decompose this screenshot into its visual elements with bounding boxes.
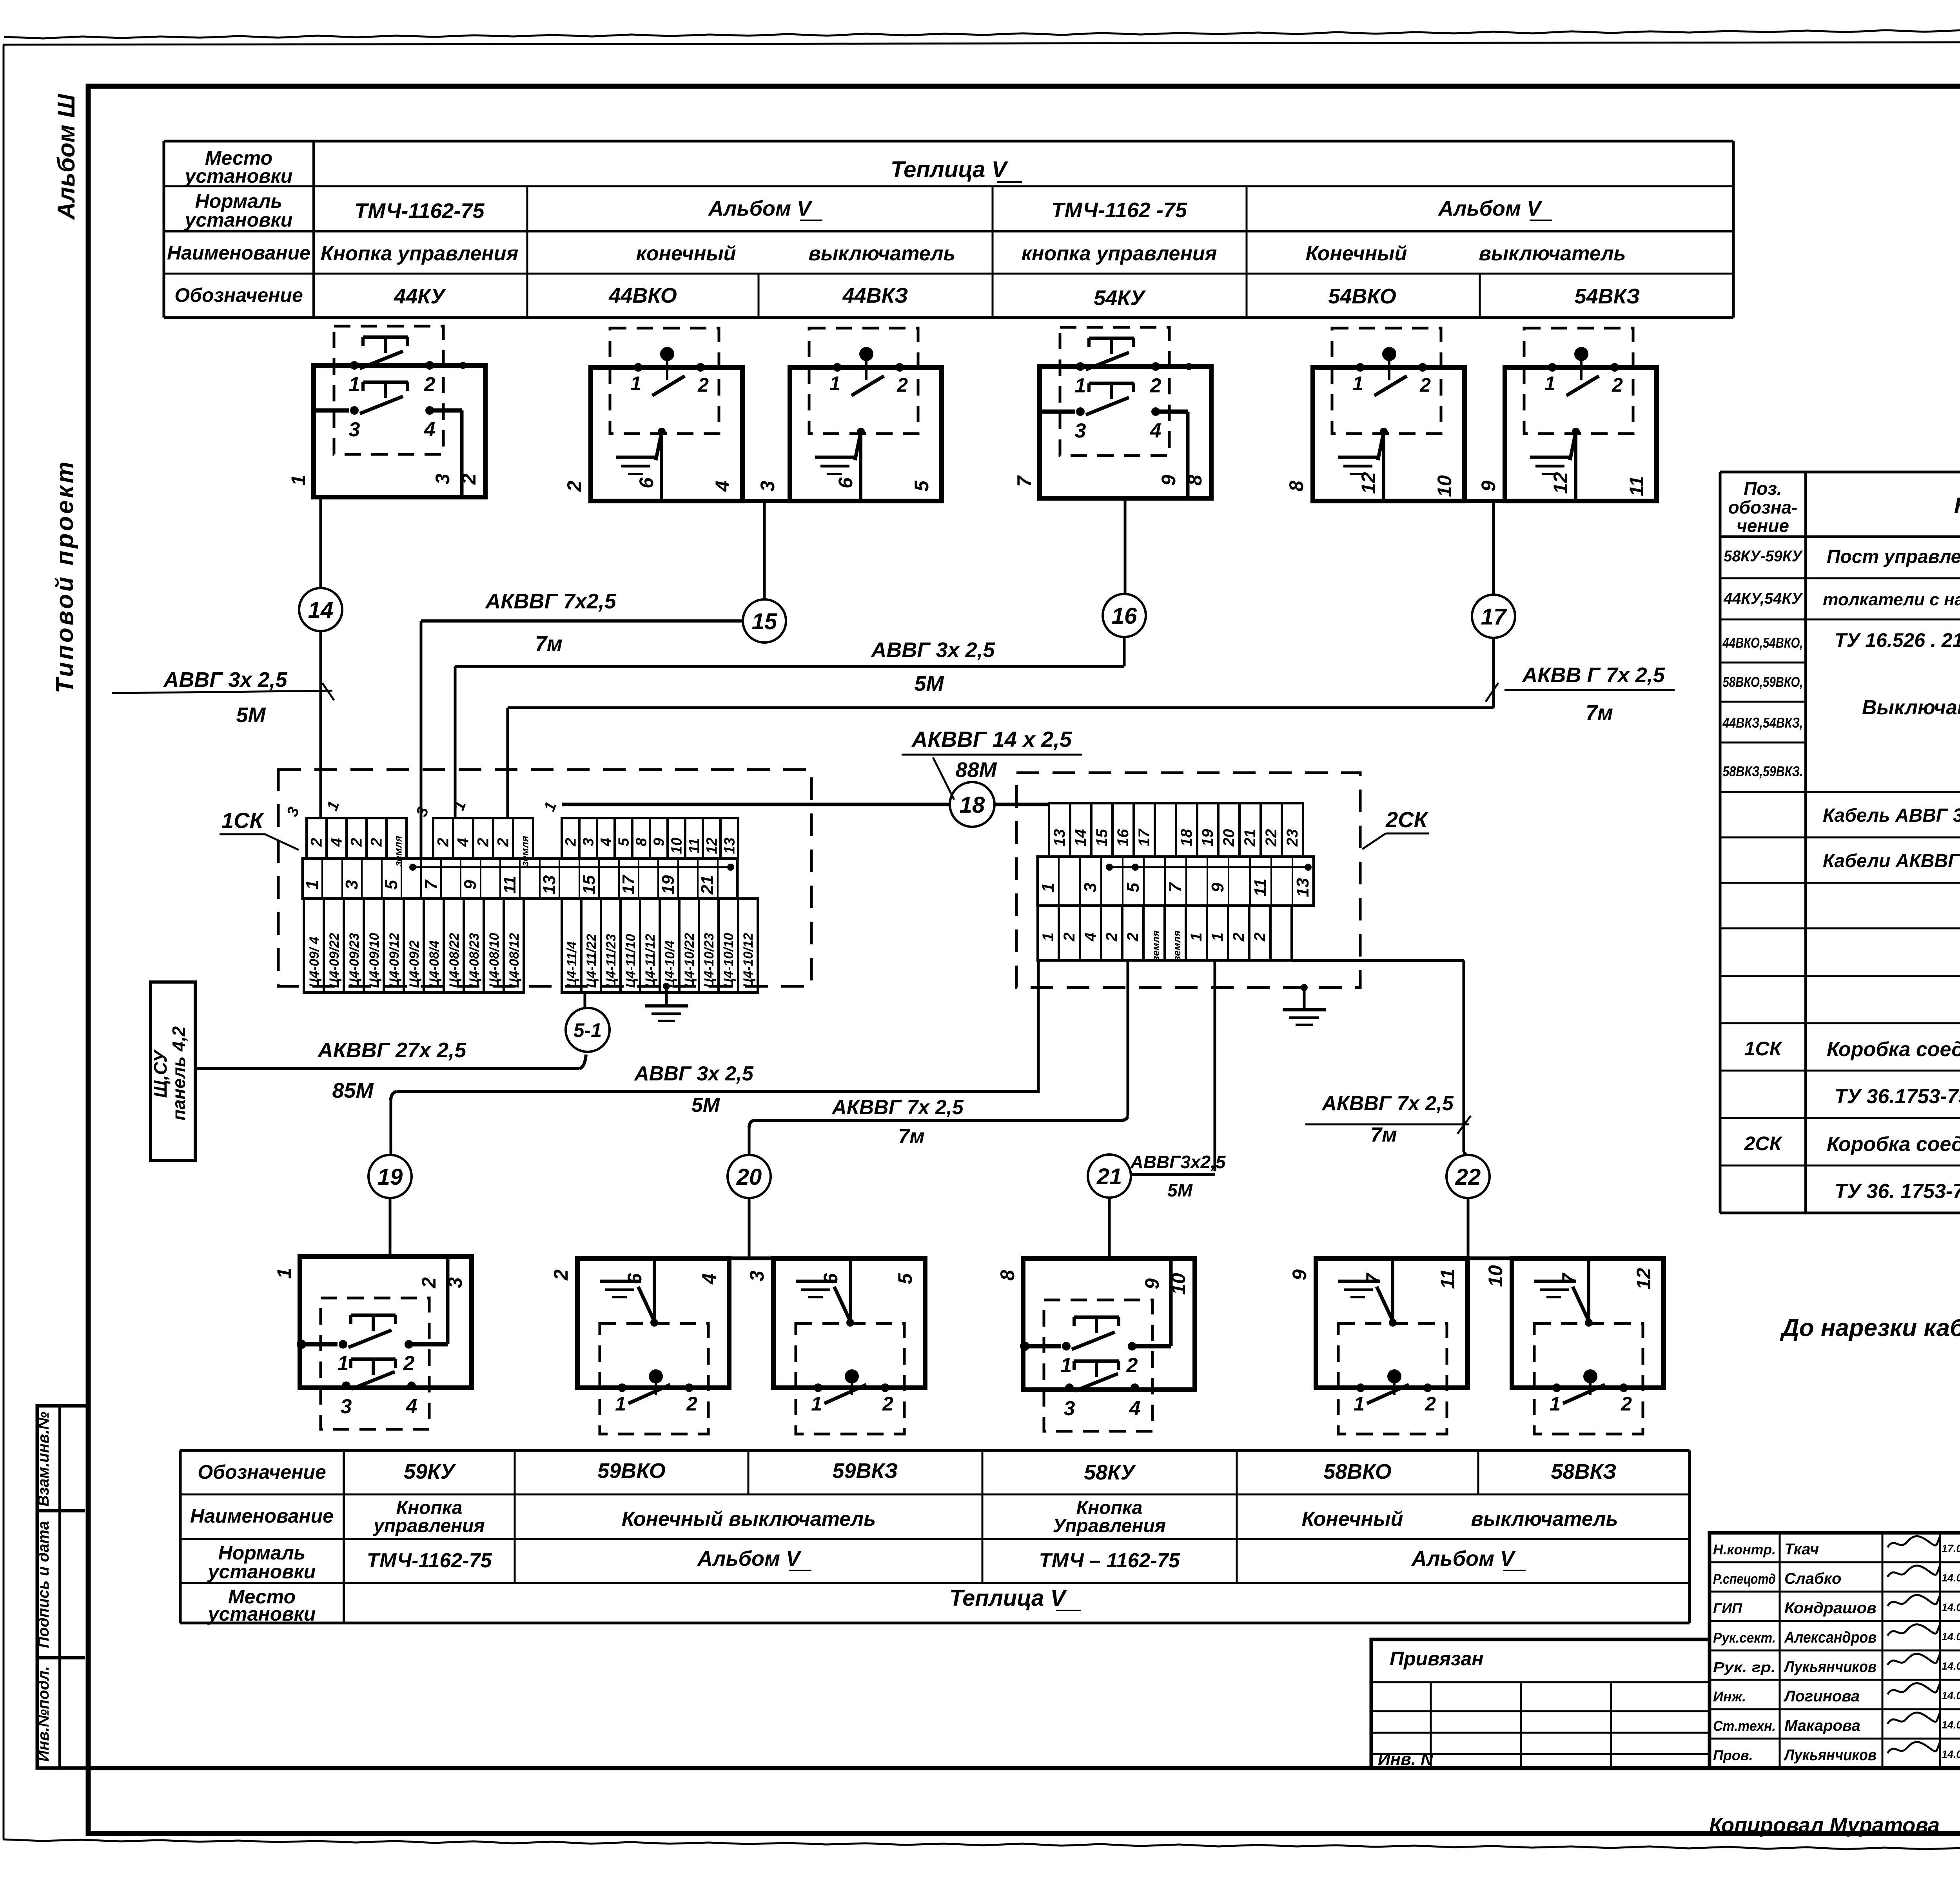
svg-text:ТМЧ – 1162-75: ТМЧ – 1162-75 [1039,1549,1180,1572]
cable label AVVG 3x2,5 5M (to 21) [1130,1152,1226,1200]
svg-text:44ВКО,54ВКО,: 44ВКО,54ВКО, [1722,635,1803,651]
svg-text:Ст.техн.: Ст.техн. [1713,1718,1776,1734]
svg-text:4: 4 [711,481,733,492]
svg-text:Подпись и дата: Подпись и дата [35,1521,52,1648]
ground at 1SK [645,983,688,1021]
svg-text:10: 10 [1434,475,1455,497]
svg-text:7: 7 [1558,1273,1580,1284]
svg-text:панель 4,2: панель 4,2 [169,1026,189,1120]
svg-text:Типовой проект: Типовой проект [51,459,78,693]
svg-text:22: 22 [1263,829,1280,847]
wire 44VK pair to marker 15 [763,501,766,600]
svg-text:19: 19 [377,1164,403,1190]
svg-text:14.01.86г: 14.01.86г [1942,1660,1960,1672]
svg-text:10: 10 [1167,1273,1189,1295]
svg-text:20: 20 [736,1164,762,1190]
svg-text:16: 16 [1114,829,1132,846]
svg-text:Обозначение: Обозначение [198,1461,326,1483]
svg-text:1: 1 [1188,933,1205,941]
svg-text:13: 13 [1293,878,1312,897]
cable marker 14 [299,588,342,631]
svg-text:7: 7 [1013,475,1035,487]
svg-text:3: 3 [1081,883,1100,892]
svg-text:земля: земля [392,836,404,866]
svg-text:18: 18 [960,792,985,818]
svg-text:Ц4-09/ 4: Ц4-09/ 4 [307,937,322,988]
wire 2SK to marker 19 (AVVG 3x2,5) [1037,960,1040,1093]
cable label AKVVG 7x2,5 7m (to 22) [1305,1092,1471,1146]
svg-text:14: 14 [1072,829,1089,847]
cable label AVVG 3x2,5 5M (left, to 14) [112,668,334,727]
svg-text:Ц4-08/22: Ц4-08/22 [447,933,462,988]
svg-text:9: 9 [651,838,668,846]
svg-text:2: 2 [1103,933,1120,942]
cable marker 20 [728,1155,771,1198]
svg-text:выключатель: выключатель [1471,1508,1618,1530]
svg-text:Александров: Александров [1784,1629,1877,1646]
svg-text:Ц4-08/4: Ц4-08/4 [427,940,442,988]
svg-text:7м: 7м [898,1125,924,1148]
svg-text:Управления: Управления [1053,1516,1166,1536]
svg-text:Кондрашов: Кондрашов [1784,1599,1877,1617]
svg-text:7: 7 [421,879,441,890]
2SK upper cable-core tags [1049,803,1303,857]
2SK terminal strip [1038,857,1314,906]
svg-text:2: 2 [368,838,385,847]
svg-text:1СК: 1СК [1744,1038,1783,1060]
svg-text:16: 16 [1112,603,1137,629]
wire marker 19 to 59KU [389,1198,392,1256]
svg-text:До нарезки кабелей длины тра: До нарезки кабелей длины трасс уточнить … [1780,1314,1960,1342]
svg-text:установки: установки [184,165,293,187]
svg-text:Ц4-09/10: Ц4-09/10 [367,933,382,988]
svg-text:Наименование: Наименование [167,242,310,264]
svg-text:4: 4 [328,838,345,847]
svg-text:12: 12 [1550,472,1572,494]
svg-text:20: 20 [1220,829,1238,847]
wire 2SK to marker 20 (AKVVG 7x2,5) [1127,960,1129,1116]
svg-text:5: 5 [1123,882,1143,892]
svg-text:11: 11 [1626,476,1648,496]
limit switch 54VKZ [1477,328,1657,501]
push-button station 59KU [273,1256,472,1429]
svg-text:Р.спецотд: Р.спецотд [1713,1571,1776,1587]
top equipment table [164,141,1733,318]
cable marker 18 [950,782,995,827]
bottom equipment table [180,1450,1690,1625]
svg-text:Взам.инв.№: Взам.инв.№ [35,1412,52,1507]
ground at 2SK [1283,984,1326,1025]
limit switch 59VKZ [746,1258,925,1434]
svg-text:1: 1 [273,1268,295,1279]
svg-text:Ц4-10/23: Ц4-10/23 [702,933,717,988]
svg-text:58КУ: 58КУ [1084,1461,1136,1484]
svg-text:Ц4-11/4: Ц4-11/4 [564,941,579,988]
cable label AKVVG 7x2,5 7m (to 20) [831,1096,964,1148]
svg-text:1: 1 [1038,883,1058,892]
svg-text:2: 2 [1061,933,1078,942]
svg-text:10: 10 [1485,1265,1506,1287]
svg-text:3: 3 [444,1277,466,1288]
svg-text:Рук.сект.: Рук.сект. [1713,1630,1776,1646]
svg-text:17: 17 [1136,828,1153,846]
svg-text:5М: 5М [914,672,944,695]
svg-text:Выключатель конечный: Выключатель конечный [1862,696,1960,719]
svg-text:2: 2 [475,838,492,847]
limit switch 58VKO [1289,1258,1468,1434]
svg-text:Коробка соединительная КСК-16: Коробка соединительная КСК-16 [1827,1133,1960,1156]
svg-text:Конечный: Конечный [1306,242,1407,265]
svg-text:Кабель АВВГ 3х2,5 – 0,66 ГОСТ: Кабель АВВГ 3х2,5 – 0,66 ГОСТ 16442-80 [1823,805,1960,826]
svg-text:АКВВГ 7х2,5: АКВВГ 7х2,5 [485,590,616,613]
svg-text:6: 6 [820,1273,842,1284]
svg-text:14.01.86г: 14.01.86г [1942,1690,1960,1701]
cable marker 17 [1472,595,1515,638]
svg-text:Обозначение: Обозначение [174,284,303,306]
svg-text:Копировал Муратова: Копировал Муратова [1709,1813,1940,1837]
svg-text:14.01.86г: 14.01.86г [1942,1748,1960,1760]
wire 44KU to marker 14 [319,497,322,588]
paper bottom edge (wavy) [3,1839,1960,1852]
svg-text:58ВКЗ: 58ВКЗ [1551,1460,1617,1483]
svg-text:4: 4 [598,838,615,846]
svg-text:12: 12 [704,837,720,854]
svg-text:Поз.: Поз. [1744,478,1782,499]
svg-text:АКВВГ 7х 2,5: АКВВГ 7х 2,5 [831,1096,964,1119]
svg-text:АКВВГ 7х 2,5: АКВВГ 7х 2,5 [1321,1092,1454,1115]
title block annex (Privyazan) [1371,1639,1710,1769]
wire marker 22 to 58VK pair [1467,1198,1470,1258]
svg-text:2: 2 [418,1277,440,1289]
svg-text:АВВГ3х2,5: АВВГ3х2,5 [1130,1152,1226,1172]
wire marker 16 to 1SK [1123,637,1126,666]
2SK internal jumper [1106,864,1312,871]
svg-text:22: 22 [1455,1164,1481,1190]
signature rows [1713,1536,1960,1764]
svg-text:8: 8 [1184,475,1206,486]
svg-text:ТМЧ-1162-75: ТМЧ-1162-75 [354,199,485,223]
svg-text:2: 2 [1251,933,1269,942]
cable marker 21 [1088,1155,1131,1198]
svg-text:Кабели АКВВГ ГОСТ 1508-: Кабели АКВВГ ГОСТ 1508-78 [1823,851,1960,871]
cable label AKVVG 7x2,5 7m (to 17) [1486,663,1675,724]
svg-text:59ВКЗ: 59ВКЗ [833,1459,898,1483]
svg-text:3: 3 [342,880,361,890]
cable label AKVVG 7x2,5 7m (to 15) [485,590,616,655]
svg-text:21: 21 [698,875,717,895]
svg-text:15: 15 [752,609,777,634]
svg-text:44ВКЗ: 44ВКЗ [842,284,908,307]
svg-text:9: 9 [1289,1269,1310,1280]
svg-text:1: 1 [303,880,322,890]
svg-text:7м: 7м [535,632,563,655]
svg-text:конечный: конечный [636,242,736,265]
svg-text:7м: 7м [1370,1124,1397,1146]
svg-text:2СК: 2СК [1744,1133,1783,1155]
svg-text:2: 2 [563,838,579,846]
svg-text:Привязан: Привязан [1390,1648,1484,1670]
svg-text:21: 21 [1096,1164,1122,1189]
svg-text:1: 1 [1209,933,1226,941]
svg-text:обозна-: обозна- [1728,497,1798,517]
svg-text:4: 4 [698,1273,720,1285]
svg-text:Пост управления кнопочный ПКЕ: Пост управления кнопочный ПКЕ-222-2; [1827,546,1960,567]
svg-text:Коробка соединительнаяКСК-32: Коробка соединительнаяКСК-32 [1827,1038,1960,1061]
paper top border line [3,42,1960,45]
svg-text:Ц4-10/10: Ц4-10/10 [721,933,736,988]
svg-text:Альбом Ш: Альбом Ш [53,94,80,221]
svg-text:12: 12 [1357,472,1379,494]
svg-text:Ц4-11/23: Ц4-11/23 [604,934,619,988]
wire: bridge 58VKO-58VKZ [1468,1256,1512,1260]
svg-text:5: 5 [894,1273,916,1284]
svg-text:Инж.: Инж. [1713,1688,1746,1705]
svg-text:54КУ: 54КУ [1094,286,1146,310]
svg-text:земля: земля [519,836,531,866]
1SK terminal strip [303,859,737,899]
svg-text:Лукьянчиков: Лукьянчиков [1783,1658,1877,1676]
cable marker 22 [1446,1155,1490,1198]
svg-text:9: 9 [1158,475,1180,486]
svg-text:Инв.№подл.: Инв.№подл. [35,1666,52,1762]
svg-text:установки: установки [184,209,293,231]
svg-text:7: 7 [1362,1273,1384,1284]
svg-text:14.01.86г: 14.01.86г [1942,1601,1960,1613]
svg-text:Наименование: Наименование [1954,493,1960,517]
svg-text:АВВГ 3х 2,5: АВВГ 3х 2,5 [633,1062,754,1085]
svg-text:13: 13 [1051,829,1068,847]
svg-text:11: 11 [1437,1269,1459,1289]
svg-text:1: 1 [287,475,309,486]
svg-text:44ВКЗ,54ВКЗ,: 44ВКЗ,54ВКЗ, [1722,715,1803,731]
svg-text:АВВГ 3х 2,5: АВВГ 3х 2,5 [870,638,995,662]
cable marker 15 [743,599,786,643]
svg-text:13: 13 [722,837,738,854]
svg-text:установки: установки [207,1603,316,1625]
svg-text:1СК: 1СК [221,808,265,833]
svg-text:ТМЧ-1162 -75: ТМЧ-1162 -75 [1051,198,1187,222]
limit switch 54VKO [1285,328,1465,501]
svg-text:10: 10 [669,837,685,854]
cable marker 16 [1103,594,1146,637]
svg-text:14.01.86г: 14.01.86г [1942,1572,1960,1584]
svg-text:выключатель: выключатель [1479,242,1626,265]
svg-text:58ВКЗ,59ВКЗ.: 58ВКЗ,59ВКЗ. [1723,763,1803,779]
svg-text:5М: 5М [1167,1180,1193,1200]
limit switch 44VKZ [757,328,942,501]
svg-text:6: 6 [624,1273,646,1284]
svg-text:85М: 85М [332,1079,374,1102]
svg-text:ТМЧ-1162-75: ТМЧ-1162-75 [367,1549,492,1572]
wire SchSU to marker 5-1 [195,1067,579,1070]
junction box 1SK boundary [278,770,811,986]
wire: bridge 59VKO-59VKZ [729,1256,773,1260]
svg-text:2: 2 [458,474,480,485]
svg-text:Альбом V: Альбом V [708,197,813,220]
svg-text:54ВКЗ: 54ВКЗ [1575,285,1640,308]
svg-text:2: 2 [550,1269,572,1281]
svg-text:Конечный выключатель: Конечный выключатель [622,1508,876,1530]
svg-text:Ц4-10/4: Ц4-10/4 [662,940,677,988]
svg-text:15: 15 [1093,829,1111,846]
parts list table [1720,472,1960,1213]
paper top edge (wavy) [4,28,1960,38]
svg-text:3: 3 [746,1271,768,1282]
1SK internal jumper [409,864,734,871]
svg-text:Альбом V: Альбом V [697,1547,802,1570]
svg-text:Ц4-09/23: Ц4-09/23 [347,933,362,988]
svg-text:Ц4-10/22: Ц4-10/22 [682,933,697,988]
svg-text:Лукьянчиков: Лукьянчиков [1783,1746,1877,1764]
svg-text:4: 4 [455,838,472,847]
svg-text:кнопка управления: кнопка управления [1022,242,1217,265]
svg-text:АКВВГ 27х 2,5: АКВВГ 27х 2,5 [317,1038,466,1062]
svg-text:толкатели с надписями„Открыть”: толкатели с надписями„Открыть”,„Закрыть”… [1823,590,1960,609]
wire: bridge 44VKO-44VKZ [742,499,790,503]
cable label AKVVG 14x2,5 88M (bus to 18) [902,727,1082,800]
svg-text:2: 2 [495,838,512,847]
limit switch 59VKO [550,1258,729,1434]
svg-text:9: 9 [1208,882,1227,892]
push-button station 44KU [287,326,485,497]
svg-text:Рук. гр.: Рук. гр. [1713,1659,1776,1675]
wire 2SK to marker 21 [1214,960,1216,1171]
limit switch 44VKO [563,328,742,501]
svg-text:2: 2 [308,838,325,847]
svg-text:АКВВГ 14 х 2,5: АКВВГ 14 х 2,5 [911,727,1072,752]
svg-text:5: 5 [911,480,933,492]
svg-text:Слабко: Слабко [1784,1570,1842,1587]
svg-text:Макарова: Макарова [1784,1717,1860,1734]
svg-text:Ц4-09/2: Ц4-09/2 [407,940,422,988]
wire 2SK to marker 22 [1292,959,1464,962]
svg-text:9: 9 [1477,481,1499,492]
svg-text:Конечный: Конечный [1302,1508,1403,1530]
svg-text:Теплица V: Теплица V [949,1585,1067,1611]
svg-text:14.01.86г: 14.01.86г [1942,1719,1960,1731]
svg-text:23: 23 [1284,829,1301,847]
svg-text:54ВКО: 54ВКО [1328,285,1396,308]
1SK upper cable-core tags [283,799,738,866]
svg-text:Теплица V: Теплица V [891,157,1008,182]
svg-text:чение: чение [1737,516,1789,536]
svg-text:58ВКО,59ВКО,: 58ВКО,59ВКО, [1723,674,1803,690]
svg-text:ТУ 16.526 . 216 - 78: ТУ 16.526 . 216 - 78 [1835,629,1960,651]
svg-text:установки: установки [207,1561,316,1583]
svg-text:4: 4 [1082,933,1099,942]
svg-text:Ткач: Ткач [1784,1541,1819,1558]
title block main [1710,1533,1960,1768]
svg-text:ТУ 36.1753-75: ТУ 36.1753-75 [1835,1085,1960,1108]
wire marker 20 to 59VK pair [748,1198,751,1258]
svg-text:7: 7 [1166,882,1185,892]
2SK lower cable tags [1038,906,1292,961]
svg-text:выключатель: выключатель [808,242,955,265]
svg-text:АКВВ Г 7х 2,5: АКВВ Г 7х 2,5 [1521,663,1665,687]
svg-text:Альбом V: Альбом V [1437,197,1543,220]
svg-text:17: 17 [619,874,638,894]
svg-text:44КУ: 44КУ [394,285,446,308]
svg-text:5М: 5М [691,1094,720,1116]
svg-text:3: 3 [432,474,454,485]
svg-text:9: 9 [1141,1278,1163,1289]
wire marker 17 to 1SK [1492,637,1495,708]
svg-text:Ц4-08/23: Ц4-08/23 [467,933,482,988]
svg-text:14.01.86г: 14.01.86г [1942,1631,1960,1643]
svg-text:19: 19 [659,875,678,894]
svg-text:11: 11 [1251,879,1270,897]
limit switch 58VKZ [1485,1258,1664,1434]
svg-text:2: 2 [348,838,365,847]
wire 54VK pair to marker 17 [1492,501,1495,595]
wire marker 15 to 1SK [421,619,743,623]
1SK lower cable tags [304,899,758,993]
push-button station 54KU [1013,327,1211,498]
svg-text:3: 3 [757,481,779,492]
svg-text:6: 6 [835,477,857,488]
svg-text:управления: управления [373,1516,485,1536]
parts rows text [1722,544,1960,1203]
svg-text:Кнопка управления: Кнопка управления [321,242,518,265]
junction box 2SK boundary [1016,773,1360,988]
svg-text:6: 6 [635,477,657,488]
svg-text:земля: земля [1171,930,1183,961]
svg-text:5-1: 5-1 [573,1019,602,1041]
cable label AKVVG 27x2,5 85M (to SchSU) [317,1038,466,1102]
svg-text:17: 17 [1481,604,1507,630]
svg-text:8: 8 [996,1270,1018,1281]
cable label AVVG 3x2,5 5M (to 19) [633,1062,754,1116]
svg-text:15: 15 [579,875,599,894]
svg-text:Наименование: Наименование [190,1505,334,1527]
cable marker 5-1 [566,1008,610,1052]
svg-text:ТУ 36. 1753-75: ТУ 36. 1753-75 [1835,1180,1960,1203]
svg-text:58ВКО: 58ВКО [1323,1460,1392,1483]
svg-text:Ц4-11/10: Ц4-11/10 [623,934,638,988]
svg-text:1: 1 [1040,933,1057,941]
svg-text:Ц4-08/12: Ц4-08/12 [507,933,522,988]
svg-text:88М: 88М [955,758,997,782]
svg-text:Н.контр.: Н.контр. [1713,1541,1776,1558]
wire: bridge 54VKO-54VKZ [1465,499,1505,503]
svg-text:Пров.: Пров. [1713,1747,1753,1763]
frame bottom offset line [88,1766,1960,1770]
svg-text:44КУ,54КУ: 44КУ,54КУ [1723,590,1803,607]
wire marker 21 to 58KU [1108,1198,1111,1258]
svg-text:17.01.86: 17.01.86 [1942,1543,1960,1554]
svg-text:2: 2 [1124,933,1142,942]
svg-text:5: 5 [382,880,401,890]
svg-text:земля: земля [1150,930,1161,961]
svg-text:14: 14 [308,597,334,623]
bus 1SK to 2SK [562,803,950,806]
svg-text:59КУ: 59КУ [404,1460,456,1483]
svg-text:Ц4-11/22: Ц4-11/22 [584,934,599,988]
svg-text:58КУ-59КУ: 58КУ-59КУ [1724,548,1803,565]
svg-text:Инв. N: Инв. N [1378,1750,1434,1769]
svg-text:2: 2 [1230,933,1247,942]
svg-text:ГИП: ГИП [1713,1600,1742,1616]
svg-text:Ц4-09/12: Ц4-09/12 [387,933,402,988]
svg-text:9: 9 [461,880,480,890]
cable marker 19 [368,1155,412,1198]
svg-text:АВВГ 3х 2,5: АВВГ 3х 2,5 [163,668,287,692]
svg-text:19: 19 [1199,829,1216,846]
svg-text:7м: 7м [1586,701,1613,724]
svg-text:Ц4-09/22: Ц4-09/22 [327,933,342,988]
svg-text:8: 8 [1285,481,1307,492]
svg-text:5: 5 [616,838,632,846]
